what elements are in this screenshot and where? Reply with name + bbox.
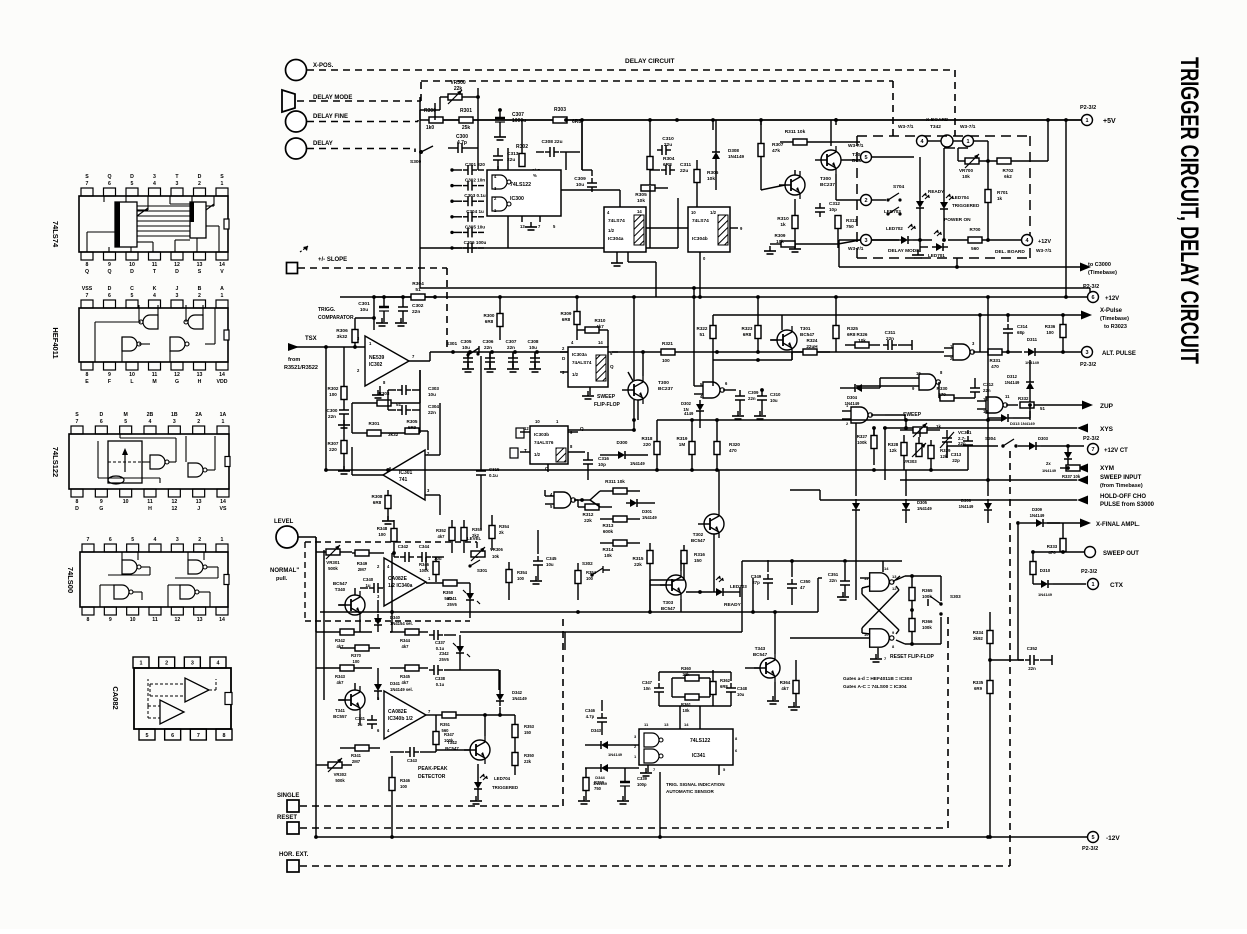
svg-text:6R8: 6R8 bbox=[663, 162, 672, 168]
resistor R319 bbox=[677, 420, 695, 470]
svg-text:150: 150 bbox=[694, 558, 702, 563]
svg-text:FLIP-FLOP: FLIP-FLOP bbox=[594, 402, 620, 408]
svg-text:T340: T340 bbox=[335, 587, 346, 592]
gate e nand bbox=[842, 403, 885, 426]
resistor R313 bbox=[600, 516, 640, 534]
pot VR301 bbox=[316, 545, 352, 571]
wire DELAY dashed bbox=[307, 149, 415, 153]
resistor R335 bbox=[973, 658, 993, 710]
label HEF4011 bbox=[51, 327, 60, 358]
label DELAY CIRCUIT bbox=[625, 58, 675, 65]
svg-text:9: 9 bbox=[108, 262, 111, 268]
pot sweep bbox=[900, 423, 941, 437]
svg-text:51: 51 bbox=[415, 287, 421, 293]
svg-text:D304: D304 bbox=[847, 395, 858, 400]
svg-text:LEVEL: LEVEL bbox=[467, 536, 481, 541]
resistor R341 bbox=[340, 745, 380, 764]
svg-text:VR302: VR302 bbox=[334, 772, 347, 777]
svg-text:LED701: LED701 bbox=[928, 253, 945, 258]
wire opamp top bbox=[355, 297, 376, 330]
svg-text:Z341: Z341 bbox=[447, 596, 457, 601]
svg-text:LED703: LED703 bbox=[730, 584, 747, 589]
svg-text:BC547: BC547 bbox=[753, 652, 768, 657]
resistor R322 bbox=[697, 315, 716, 360]
svg-text:51: 51 bbox=[699, 332, 705, 337]
svg-text:D: D bbox=[130, 174, 134, 180]
svg-text:11: 11 bbox=[152, 262, 158, 268]
capacitor C307 bbox=[495, 108, 526, 127]
resistor R329 bbox=[928, 440, 951, 470]
svg-text:10u: 10u bbox=[462, 345, 470, 350]
svg-text:C307: C307 bbox=[512, 112, 524, 118]
resistor R318 bbox=[642, 420, 660, 470]
wire delboard bbox=[872, 141, 988, 240]
svg-text:R362: R362 bbox=[720, 678, 731, 683]
wire v x836 bbox=[834, 118, 838, 125]
svg-text:D: D bbox=[99, 412, 103, 418]
svg-text:3: 3 bbox=[173, 419, 176, 425]
capacitor C300c bbox=[327, 405, 350, 428]
capacitor C316 bbox=[583, 452, 609, 480]
gate g nand bbox=[790, 629, 895, 662]
svg-text:AUTOMATIC SENSOR: AUTOMATIC SENSOR bbox=[666, 789, 714, 794]
svg-text:13: 13 bbox=[197, 617, 203, 623]
resistor R700 bbox=[948, 227, 1021, 251]
svg-text:22k: 22k bbox=[683, 672, 691, 677]
svg-text:7: 7 bbox=[87, 537, 90, 543]
svg-text:TRIGG.: TRIGG. bbox=[318, 307, 336, 313]
svg-text:5: 5 bbox=[1091, 835, 1094, 841]
svg-text:4k7: 4k7 bbox=[402, 680, 410, 685]
resistor R327 bbox=[857, 428, 877, 465]
svg-text:Z342: Z342 bbox=[439, 651, 449, 656]
svg-text:R330: R330 bbox=[937, 386, 948, 391]
wire ic300 bbox=[561, 118, 620, 207]
svg-text:8: 8 bbox=[87, 617, 90, 623]
resistor R301c bbox=[352, 403, 420, 437]
svg-text:2: 2 bbox=[165, 661, 168, 667]
wire v x660 bbox=[659, 772, 661, 837]
svg-text:12k: 12k bbox=[889, 448, 897, 453]
svg-text:D: D bbox=[75, 506, 79, 512]
svg-text:C301: C301 bbox=[358, 301, 370, 307]
svg-text:R311 10k: R311 10k bbox=[785, 129, 806, 135]
svg-text:Q: Q bbox=[107, 269, 111, 275]
svg-text:R354: R354 bbox=[517, 570, 528, 575]
resistor R307 bbox=[758, 120, 784, 190]
resistor R348 bbox=[377, 520, 397, 553]
svg-text:10u: 10u bbox=[360, 307, 368, 313]
svg-text:C314: C314 bbox=[1017, 324, 1028, 329]
gate f nand bbox=[860, 561, 900, 591]
svg-text:6: 6 bbox=[108, 293, 111, 299]
wire h y470 bbox=[324, 468, 933, 472]
svg-text:J: J bbox=[176, 286, 179, 292]
capacitor C346 bbox=[585, 700, 607, 735]
wire h y632 bbox=[460, 561, 768, 632]
svg-text:22k: 22k bbox=[634, 562, 642, 567]
transistor T301 top bbox=[815, 146, 867, 174]
svg-text:100: 100 bbox=[329, 392, 337, 397]
svg-text:10u: 10u bbox=[428, 392, 436, 397]
svg-text:S301: S301 bbox=[477, 568, 488, 573]
svg-text:10: 10 bbox=[691, 210, 696, 215]
svg-text:C345: C345 bbox=[546, 556, 557, 561]
svg-text:750: 750 bbox=[846, 224, 854, 229]
svg-text:R326: R326 bbox=[857, 332, 868, 337]
label 74LS122 bbox=[51, 447, 60, 477]
label POWER ON bbox=[944, 217, 971, 223]
svg-text:R3521/R3522: R3521/R3522 bbox=[284, 365, 318, 371]
svg-text:R306: R306 bbox=[336, 328, 348, 334]
capacitor C308 bbox=[536, 139, 566, 170]
wire DELAY FINE dashed bbox=[307, 120, 418, 122]
svg-text:9: 9 bbox=[100, 499, 103, 505]
capacitor C311m bbox=[883, 330, 912, 350]
wire sweep out bbox=[1033, 550, 1084, 554]
zener Z342 bbox=[439, 635, 470, 668]
svg-text:1N4149: 1N4149 bbox=[1030, 513, 1045, 518]
IC300 74LS122 box bbox=[487, 170, 561, 230]
wire -12V rail bbox=[316, 835, 1087, 839]
svg-text:150: 150 bbox=[524, 730, 532, 735]
svg-text:R323: R323 bbox=[742, 326, 753, 331]
svg-text:C312: C312 bbox=[829, 201, 840, 206]
wire v x990mid bbox=[988, 710, 992, 839]
svg-text:R700: R700 bbox=[970, 227, 981, 232]
svg-text:1N4149: 1N4149 bbox=[1042, 468, 1057, 473]
svg-text:R331: R331 bbox=[990, 358, 1001, 363]
svg-text:1A: 1A bbox=[220, 412, 227, 418]
svg-text:HEF4011: HEF4011 bbox=[51, 327, 60, 358]
svg-text:R309: R309 bbox=[775, 233, 786, 238]
resistor R345 bbox=[390, 665, 428, 685]
svg-text:6: 6 bbox=[100, 419, 103, 425]
resistor R309 bbox=[764, 233, 838, 254]
svg-text:IC340b 1/2: IC340b 1/2 bbox=[388, 716, 413, 722]
svg-text:10: 10 bbox=[129, 372, 135, 378]
wire to W3 terms bbox=[795, 160, 860, 244]
opamp IC340a bbox=[377, 558, 431, 606]
svg-text:DELAY MODE: DELAY MODE bbox=[313, 95, 352, 101]
svg-text:6R8: 6R8 bbox=[743, 332, 752, 337]
wire v x920s bbox=[919, 428, 921, 437]
resistor R344 bbox=[390, 629, 428, 649]
svg-text:100: 100 bbox=[517, 576, 525, 581]
svg-text:2M7: 2M7 bbox=[352, 759, 361, 764]
resistor R353 bbox=[461, 520, 483, 553]
svg-text:R370: R370 bbox=[351, 653, 362, 658]
svg-text:5: 5 bbox=[131, 293, 134, 299]
svg-text:22n: 22n bbox=[507, 345, 515, 350]
resistor R336 bbox=[1045, 315, 1066, 354]
wire v x582 bbox=[581, 120, 583, 170]
svg-text:T342: T342 bbox=[447, 740, 458, 745]
svg-text:TSX: TSX bbox=[305, 336, 317, 342]
svg-text:IC302: IC302 bbox=[369, 362, 383, 368]
svg-text:12: 12 bbox=[174, 617, 180, 623]
svg-text:D305: D305 bbox=[917, 500, 928, 505]
diode D304 bbox=[840, 384, 880, 406]
svg-text:C343: C343 bbox=[407, 758, 418, 763]
wire h y430s bbox=[872, 426, 876, 435]
LED702 bbox=[872, 224, 916, 244]
capacitor C307 row bbox=[506, 339, 519, 372]
svg-text:R313: R313 bbox=[603, 523, 614, 528]
svg-text:5: 5 bbox=[131, 537, 134, 543]
svg-text:Q: Q bbox=[85, 269, 89, 275]
diode D313 bbox=[988, 411, 1035, 426]
label TRIG SIGNAL bbox=[666, 782, 725, 794]
capacitor C337 bbox=[429, 630, 456, 651]
svg-text:13: 13 bbox=[197, 372, 203, 378]
svg-text:74LS74: 74LS74 bbox=[692, 218, 709, 224]
svg-text:8: 8 bbox=[86, 262, 89, 268]
terminal +5V bbox=[1080, 105, 1116, 126]
capacitor C312m bbox=[970, 378, 994, 398]
wire left vertical TSX-down bbox=[314, 347, 326, 839]
wire SINGLE dashed bbox=[300, 614, 563, 806]
svg-text:1N4154 sel.: 1N4154 sel. bbox=[390, 621, 413, 626]
resistor R701 bbox=[985, 159, 1008, 242]
wire level row bbox=[316, 551, 426, 632]
svg-text:D343: D343 bbox=[591, 728, 602, 733]
svg-text:14: 14 bbox=[637, 209, 642, 214]
svg-text:4: 4 bbox=[153, 181, 156, 187]
svg-text:10p: 10p bbox=[829, 207, 837, 212]
svg-text:R347: R347 bbox=[444, 732, 455, 737]
svg-text:11: 11 bbox=[1005, 394, 1010, 399]
diode D305 bbox=[902, 470, 932, 523]
svg-text:14: 14 bbox=[219, 262, 225, 268]
wire v x1018 bbox=[1016, 521, 1024, 660]
svg-text:12: 12 bbox=[171, 499, 177, 505]
resistor R312t bbox=[835, 216, 857, 249]
transistor T301m bbox=[770, 315, 815, 360]
svg-text:R333: R333 bbox=[1047, 544, 1058, 549]
label RESET FLIPFLOP bbox=[890, 654, 935, 660]
label DEL BOARD bbox=[995, 249, 1025, 255]
svg-text:COMPARATOR: COMPARATOR bbox=[318, 315, 354, 321]
svg-text:10: 10 bbox=[123, 499, 129, 505]
svg-text:RESET: RESET bbox=[277, 815, 297, 821]
svg-text:750: 750 bbox=[594, 786, 602, 791]
svg-text:R351: R351 bbox=[440, 722, 451, 727]
capacitor C309 bbox=[574, 120, 597, 192]
capacitor C342 bbox=[394, 544, 414, 562]
svg-text:R348: R348 bbox=[377, 526, 388, 531]
svg-text:C313: C313 bbox=[951, 452, 962, 457]
resistor R331 bbox=[982, 349, 1022, 369]
svg-text:74ALS74: 74ALS74 bbox=[572, 360, 592, 365]
svg-text:Gates a-d = HEF4011B = IC303: Gates a-d = HEF4011B = IC303 bbox=[843, 676, 912, 682]
svg-text:100: 100 bbox=[662, 358, 670, 363]
label TRIGG COMPARATOR bbox=[318, 307, 354, 321]
connector DELAY bbox=[286, 138, 333, 159]
resistor R305 bbox=[635, 185, 668, 204]
svg-text:1k: 1k bbox=[936, 424, 941, 429]
connector HOR EXT bbox=[279, 852, 309, 872]
svg-text:74LS00: 74LS00 bbox=[66, 567, 75, 593]
svg-text:R336: R336 bbox=[1045, 324, 1056, 329]
svg-text:IC300: IC300 bbox=[510, 196, 524, 202]
svg-text:D309: D309 bbox=[1032, 507, 1043, 512]
capacitor C305 bbox=[450, 224, 485, 237]
svg-text:370: 370 bbox=[938, 392, 946, 397]
svg-text:H: H bbox=[198, 379, 202, 385]
svg-text:100k: 100k bbox=[857, 440, 867, 445]
connector RESET bbox=[277, 815, 299, 834]
svg-text:51: 51 bbox=[1040, 406, 1045, 411]
wire v x650b bbox=[649, 580, 651, 612]
svg-text:NORMAL": NORMAL" bbox=[270, 568, 299, 574]
resistor R326 bbox=[845, 332, 880, 348]
LED701 bbox=[912, 230, 948, 258]
svg-text:C311: C311 bbox=[680, 162, 692, 168]
svg-text:DETECTOR: DETECTOR bbox=[418, 774, 446, 780]
inductor R324 bbox=[792, 338, 830, 355]
svg-text:S301: S301 bbox=[446, 341, 458, 347]
wire v x578 mid bbox=[574, 500, 578, 507]
svg-text:100: 100 bbox=[586, 576, 594, 581]
transistor T343 bbox=[745, 640, 780, 704]
transistor T340 bbox=[333, 581, 365, 632]
svg-text:IC341: IC341 bbox=[692, 753, 706, 759]
svg-text:8: 8 bbox=[223, 733, 226, 739]
svg-text:R320: R320 bbox=[729, 442, 740, 447]
svg-text:LEVEL: LEVEL bbox=[274, 519, 294, 525]
capacitor C304f bbox=[388, 370, 439, 433]
svg-text:3: 3 bbox=[864, 238, 867, 244]
IC304a 74LS74 half bbox=[604, 207, 646, 266]
svg-text:F: F bbox=[108, 379, 111, 385]
svg-text:P2-3/2: P2-3/2 bbox=[1083, 284, 1099, 290]
transistor T304 bbox=[622, 376, 673, 404]
svg-text:R346: R346 bbox=[419, 562, 430, 567]
wire ic301 bbox=[352, 403, 440, 515]
IC 74LS122 package pinout bbox=[69, 412, 230, 512]
svg-text:VDD: VDD bbox=[217, 379, 228, 385]
capacitor C310m bbox=[754, 388, 781, 419]
svg-text:R353: R353 bbox=[472, 527, 483, 532]
svg-text:V: V bbox=[220, 269, 224, 275]
svg-text:W3-7/1: W3-7/1 bbox=[1036, 248, 1052, 254]
svg-text:C304: C304 bbox=[428, 404, 439, 409]
wire v x713 bbox=[711, 118, 715, 386]
diode D311 bbox=[1024, 337, 1081, 365]
capacitor C306 bbox=[450, 240, 486, 253]
svg-text:Q: Q bbox=[107, 174, 111, 180]
svg-text:74ALS76: 74ALS76 bbox=[534, 440, 554, 445]
svg-text:13: 13 bbox=[520, 224, 525, 229]
capacitor C347 bbox=[642, 672, 664, 706]
svg-text:R354: R354 bbox=[499, 524, 510, 529]
svg-text:READY: READY bbox=[928, 189, 944, 194]
resistor R350b bbox=[512, 748, 535, 775]
svg-text:R350: R350 bbox=[443, 590, 454, 595]
svg-text:6R8: 6R8 bbox=[373, 500, 382, 505]
capacitor C340 bbox=[360, 570, 384, 593]
svg-text:R334: R334 bbox=[973, 630, 984, 635]
wire v x435 bbox=[434, 103, 436, 120]
svg-text:1: 1 bbox=[966, 139, 969, 145]
svg-text:CA082E: CA082E bbox=[388, 709, 408, 715]
svg-text:22n: 22n bbox=[328, 414, 336, 419]
label PEAK-PEAK bbox=[418, 766, 448, 780]
svg-text:BC547: BC547 bbox=[800, 332, 815, 337]
svg-text:C307: C307 bbox=[506, 339, 517, 344]
svg-text:R360: R360 bbox=[681, 666, 692, 671]
resistor R309m bbox=[561, 297, 580, 340]
svg-text:3: 3 bbox=[176, 181, 179, 187]
svg-text:Gates A-C = 74LS00 = IC304: Gates A-C = 74LS00 = IC304 bbox=[843, 684, 907, 690]
svg-text:D311: D311 bbox=[1027, 337, 1038, 342]
wire h y420 bbox=[657, 418, 1002, 422]
svg-text:R701: R701 bbox=[997, 190, 1008, 195]
svg-text:C306: C306 bbox=[483, 339, 494, 344]
label SWEEP FLIPFLOP bbox=[594, 394, 620, 408]
svg-text:1N4149: 1N4149 bbox=[1005, 380, 1020, 385]
svg-text:14: 14 bbox=[598, 340, 603, 345]
capacitor C314 bbox=[1003, 315, 1028, 354]
svg-text:10k: 10k bbox=[683, 708, 691, 713]
svg-text:2B: 2B bbox=[147, 412, 154, 418]
IC303b 74ALS76 bbox=[510, 419, 573, 472]
svg-text:C311: C311 bbox=[885, 330, 896, 335]
svg-text:12: 12 bbox=[524, 426, 529, 431]
arrow X-FINAL bbox=[1047, 519, 1140, 529]
svg-text:2x: 2x bbox=[1046, 461, 1051, 466]
svg-text:74LS122: 74LS122 bbox=[690, 738, 711, 744]
resistor R350a bbox=[426, 580, 470, 601]
label DELAY MODE small bbox=[888, 248, 920, 254]
resistor R323 bbox=[742, 297, 761, 352]
svg-text:11: 11 bbox=[152, 372, 158, 378]
arrow ZUP bbox=[1082, 401, 1114, 411]
trimmer VC301 bbox=[940, 430, 972, 458]
svg-text:12: 12 bbox=[171, 506, 177, 512]
svg-text:2: 2 bbox=[198, 293, 201, 299]
svg-text:R341: R341 bbox=[351, 753, 362, 758]
LED703 del bbox=[884, 157, 930, 242]
resistor R306c bbox=[336, 318, 358, 347]
svg-text:10k: 10k bbox=[604, 553, 612, 558]
svg-text:C347: C347 bbox=[642, 680, 653, 685]
svg-text:3: 3 bbox=[176, 537, 179, 543]
capacitor C313 bbox=[492, 148, 519, 174]
svg-text:(Timebase): (Timebase) bbox=[1100, 316, 1129, 322]
capacitor C352 bbox=[990, 646, 1052, 671]
wire v x420 bbox=[419, 248, 421, 288]
svg-text:R327: R327 bbox=[857, 434, 868, 439]
wire left vertical 2 bbox=[323, 550, 325, 700]
svg-text:D308: D308 bbox=[728, 148, 739, 153]
svg-text:22uH: 22uH bbox=[806, 344, 818, 349]
svg-text:DELAY FINE: DELAY FINE bbox=[313, 114, 348, 120]
svg-text:BC557: BC557 bbox=[333, 714, 347, 719]
resistor R353b bbox=[512, 724, 535, 748]
wire ic303b q bbox=[568, 426, 585, 452]
svg-text:470: 470 bbox=[991, 364, 999, 369]
IC303a 74ALS74 bbox=[560, 340, 618, 399]
svg-text:X-FINAL AMPL.: X-FINAL AMPL. bbox=[1096, 522, 1140, 528]
svg-text:1/2: 1/2 bbox=[608, 228, 615, 233]
connector DELAY MODE bbox=[282, 90, 352, 112]
svg-text:1N4149: 1N4149 bbox=[1025, 360, 1040, 365]
svg-text:2k: 2k bbox=[499, 530, 504, 535]
wire h y490 bbox=[544, 490, 546, 496]
resistor R302c bbox=[328, 347, 347, 405]
